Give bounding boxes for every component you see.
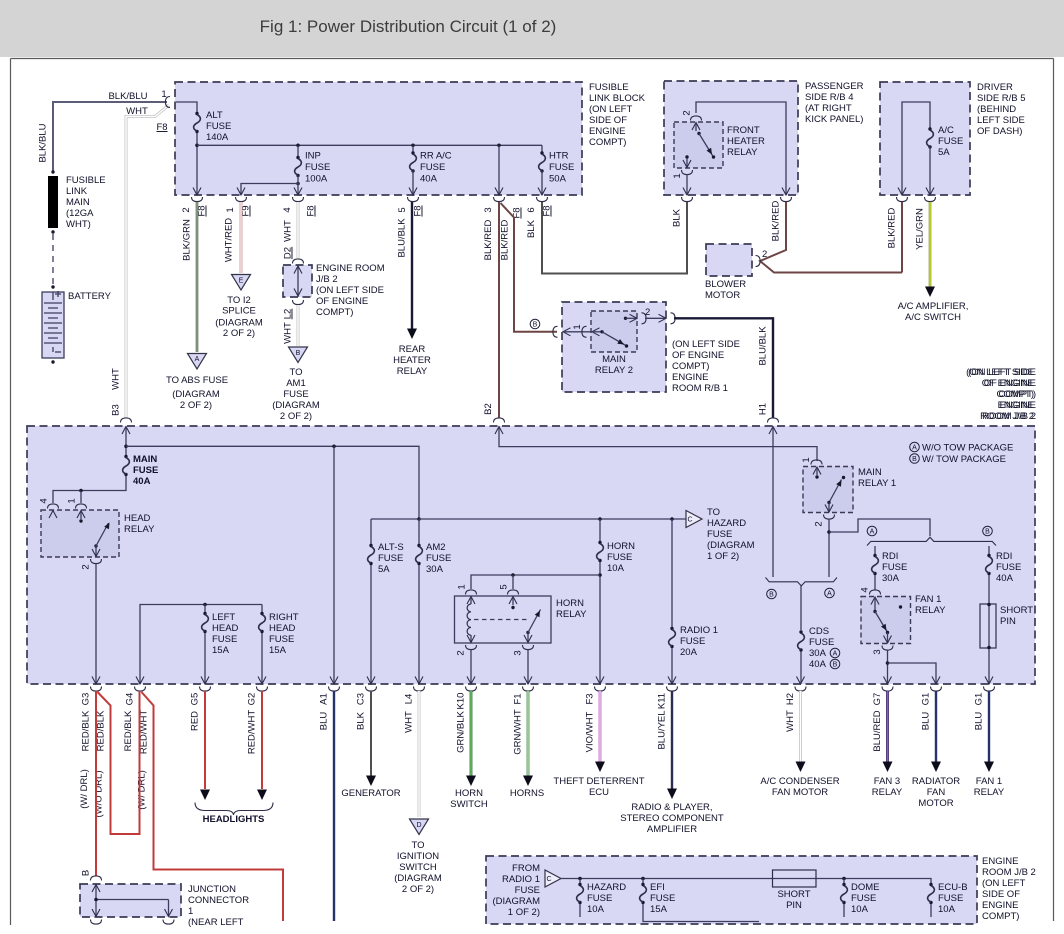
svg-text:10A: 10A: [851, 904, 869, 915]
svg-text:BLK/RED: BLK/RED: [483, 220, 494, 261]
svg-text:RED/BLK: RED/BLK: [123, 710, 134, 751]
svg-text:ENGINE: ENGINE: [1000, 400, 1036, 411]
svg-text:A: A: [827, 591, 832, 598]
triangle C from radio 1 fuse: [545, 870, 561, 887]
svg-text:HORN: HORN: [556, 598, 584, 609]
svg-text:HAZARD: HAZARD: [707, 518, 746, 529]
SEC-LEFT: [38, 89, 184, 418]
relay internals: [696, 102, 786, 195]
svg-text:K10: K10: [456, 693, 467, 710]
svg-text:BLK: BLK: [672, 208, 683, 227]
battery: [42, 291, 112, 364]
connector K11 at main box bottom: [668, 677, 676, 685]
ALT fuse 140A: [176, 102, 197, 112]
svg-text:G1: G1: [921, 693, 932, 706]
SEC-BOTTOM: [79, 677, 1005, 929]
svg-text:THEFT DETERRENT: THEFT DETERRENT: [553, 776, 644, 787]
svg-text:F8: F8: [413, 205, 424, 216]
svg-text:Fig 1: Power Distribution Circ: Fig 1: Power Distribution Circuit (1 of …: [260, 17, 557, 36]
svg-text:C3: C3: [356, 693, 367, 705]
svg-text:PIN: PIN: [1000, 616, 1016, 627]
svg-text:(ON LEFT SIDE: (ON LEFT SIDE: [316, 285, 384, 296]
svg-text:B: B: [985, 529, 990, 536]
svg-text:RED/WHT: RED/WHT: [247, 710, 258, 755]
svg-text:H2: H2: [785, 693, 796, 705]
main bus from main fuse: [126, 446, 419, 519]
svg-text:RADIATOR: RADIATOR: [912, 776, 960, 787]
svg-text:ROOM R/B 1: ROOM R/B 1: [672, 383, 728, 394]
svg-text:ROOM J/B 2: ROOM J/B 2: [982, 867, 1036, 878]
svg-text:W/ TOW PACKAGE: W/ TOW PACKAGE: [922, 454, 1006, 465]
svg-text:FAN MOTOR: FAN MOTOR: [772, 787, 828, 798]
svg-text:B: B: [533, 322, 538, 329]
BLK/RED drop x=499: [497, 144, 501, 148]
fusible link main: [51, 170, 54, 173]
headlights brace: [195, 803, 273, 816]
svg-text:RELAY 2: RELAY 2: [595, 365, 633, 376]
svg-text:G2: G2: [247, 693, 258, 706]
svg-text:OF ENGINE: OF ENGINE: [316, 296, 368, 307]
svg-text:FAN 1: FAN 1: [976, 776, 1002, 787]
svg-text:RIGHT: RIGHT: [269, 612, 299, 623]
svg-text:B3: B3: [111, 404, 122, 416]
svg-text:140A: 140A: [206, 132, 229, 143]
svg-text:WHT): WHT): [66, 219, 91, 230]
svg-text:ECU-B: ECU-B: [938, 882, 968, 893]
svg-text:(12GA: (12GA: [66, 208, 94, 219]
title header bar: [0, 0, 1064, 57]
svg-text:LEFT: LEFT: [212, 612, 235, 623]
svg-text:J/B 2: J/B 2: [316, 274, 338, 285]
B3 entry: [121, 418, 132, 423]
svg-text:A: A: [195, 356, 200, 363]
svg-text:F3: F3: [585, 693, 596, 704]
svg-text:(ON LEFT SIDE: (ON LEFT SIDE: [968, 367, 1036, 378]
svg-text:FUSE: FUSE: [882, 562, 907, 573]
svg-text:FUSE: FUSE: [206, 121, 231, 132]
fan 1 relay: [870, 590, 881, 595]
svg-text:W/O TOW PACKAGE: W/O TOW PACKAGE: [922, 443, 1013, 454]
horn fuse 10A: [598, 517, 602, 521]
svg-text:L2: L2: [283, 309, 294, 320]
svg-text:40A: 40A: [996, 573, 1014, 584]
connector G5 at main box bottom: [201, 677, 209, 685]
main fuse 40A: [125, 427, 127, 456]
svg-text:C: C: [688, 517, 693, 524]
svg-text:(W/ DRL): (W/ DRL): [79, 769, 90, 809]
svg-text:LEFT SIDE: LEFT SIDE: [977, 115, 1025, 126]
svg-text:B2: B2: [483, 403, 494, 415]
svg-text:ALT-S: ALT-S: [378, 542, 404, 553]
connector K10 at main box bottom: [467, 677, 475, 685]
main relay 2 outer box: [562, 302, 666, 392]
svg-text:1: 1: [672, 173, 683, 178]
svg-text:FAN 1: FAN 1: [915, 594, 941, 605]
front heater relay inner box: [674, 122, 723, 168]
branch to RDI fuses: [829, 519, 930, 536]
svg-text:FUSE: FUSE: [650, 893, 675, 904]
svg-text:5A: 5A: [378, 564, 390, 575]
svg-text:F1: F1: [513, 693, 524, 704]
svg-text:C: C: [547, 876, 552, 883]
svg-text:30A: 30A: [426, 564, 444, 575]
svg-text:FUSE: FUSE: [607, 552, 632, 563]
svg-text:50A: 50A: [549, 174, 567, 185]
wires BLK/RED pair from node 3: [498, 202, 500, 418]
svg-text:(DIAGRAM: (DIAGRAM: [172, 389, 220, 400]
wire BLK below passenger box: [686, 202, 688, 273]
wire BLU/BLK to rear heater relay: [411, 202, 413, 329]
svg-text:1: 1: [457, 584, 468, 589]
svg-text:FUSE: FUSE: [133, 465, 158, 476]
B2 entry bus to main relay 1: [494, 418, 505, 423]
svg-text:(DIAGRAM: (DIAGRAM: [394, 873, 442, 884]
circled B at feed: [530, 319, 540, 329]
svg-text:(ON LEFT: (ON LEFT: [589, 104, 632, 115]
wire WHT to B3: [126, 105, 169, 418]
split brace to RDI fuses: [867, 537, 996, 545]
svg-text:SWITCH: SWITCH: [399, 862, 437, 873]
svg-text:HEAD: HEAD: [212, 623, 239, 634]
svg-text:15A: 15A: [650, 904, 668, 915]
svg-text:BLU: BLU: [319, 712, 330, 731]
svg-text:A: A: [833, 651, 838, 658]
svg-text:(DIAGRAM: (DIAGRAM: [272, 400, 320, 411]
wire WHT through engine room J/B 2 to AM1: [297, 202, 300, 258]
svg-text:BLU/BLK: BLU/BLK: [758, 326, 769, 366]
svg-text:B: B: [81, 870, 92, 876]
svg-text:BATTERY: BATTERY: [68, 291, 112, 302]
svg-text:MOTOR: MOTOR: [705, 290, 740, 301]
svg-text:(NEAR LEFT: (NEAR LEFT: [188, 917, 244, 928]
svg-text:BLK/RED: BLK/RED: [500, 220, 511, 261]
wire WHT to ignition switch: [418, 691, 421, 817]
ECU-B fuse 10A: [928, 883, 935, 904]
svg-text:4: 4: [282, 207, 293, 212]
svg-text:BLU: BLU: [921, 712, 932, 731]
svg-text:1: 1: [801, 457, 812, 462]
triangle E to I2 splice: [232, 275, 251, 291]
svg-text:RELAY 1: RELAY 1: [858, 478, 896, 489]
svg-text:A/C CONDENSER: A/C CONDENSER: [760, 776, 839, 787]
svg-text:TO I2: TO I2: [227, 295, 251, 306]
svg-text:B: B: [833, 662, 838, 669]
connector G1 (radiator) at main box bottom: [932, 677, 940, 685]
svg-text:FUSE: FUSE: [378, 553, 403, 564]
svg-text:5: 5: [499, 584, 510, 589]
svg-text:10A: 10A: [587, 904, 605, 915]
svg-text:HEAD: HEAD: [269, 623, 296, 634]
wire BLK from node 6 to front heater relay: [542, 202, 687, 274]
svg-text:HEATER: HEATER: [393, 355, 431, 366]
svg-text:PIN: PIN: [786, 900, 802, 911]
svg-text:F8: F8: [306, 205, 317, 216]
svg-text:HORN: HORN: [607, 541, 635, 552]
svg-text:40A: 40A: [133, 476, 151, 487]
svg-text:20A: 20A: [680, 647, 698, 658]
svg-text:WHT: WHT: [126, 106, 148, 117]
HTR fuse 50A: [541, 145, 543, 152]
svg-text:HEAD: HEAD: [124, 513, 151, 524]
bus inside fusible link block: [197, 144, 542, 146]
svg-text:F8: F8: [542, 205, 553, 216]
svg-text:FUSE: FUSE: [938, 893, 963, 904]
wire BLU/YEL to radio: [671, 691, 673, 789]
CDS fuse: [800, 586, 802, 630]
triangle B to AM1 fuse: [289, 347, 308, 363]
horn relay feeder: [471, 575, 600, 589]
svg-text:CDS: CDS: [809, 626, 829, 637]
svg-text:SPLICE: SPLICE: [222, 306, 256, 317]
svg-text:G4: G4: [125, 693, 136, 706]
svg-text:HORNS: HORNS: [510, 788, 544, 799]
svg-text:HEADLIGHTS: HEADLIGHTS: [203, 814, 265, 825]
svg-text:WHT: WHT: [111, 368, 122, 390]
wire BLK/RED from front heater relay to blower: [760, 202, 902, 273]
svg-text:PASSENGER: PASSENGER: [805, 81, 864, 92]
left head fuse 15A: [204, 605, 206, 613]
svg-text:BLK/RED: BLK/RED: [887, 208, 898, 249]
wire BLU to fan 1 relay: [988, 691, 990, 762]
svg-text:WHT: WHT: [283, 220, 294, 242]
svg-text:AM1: AM1: [286, 378, 306, 389]
svg-text:HEATER: HEATER: [727, 136, 765, 147]
svg-text:2: 2: [181, 207, 192, 212]
svg-text:1 OF 2): 1 OF 2): [508, 907, 540, 918]
connector H2 at main box bottom: [797, 677, 805, 685]
AM2 fuse 30A: [418, 519, 420, 544]
wire BLU/BLK to H1: [674, 318, 773, 417]
svg-text:DRIVER: DRIVER: [977, 82, 1013, 93]
svg-text:BLU/YEL: BLU/YEL: [657, 710, 668, 749]
svg-text:FAN 3: FAN 3: [874, 776, 900, 787]
svg-text:D2: D2: [283, 247, 294, 259]
svg-text:KICK PANEL): KICK PANEL): [805, 114, 863, 125]
svg-text:OF DASH): OF DASH): [977, 126, 1022, 137]
svg-text:FUSE: FUSE: [680, 636, 705, 647]
svg-text:2 OF 2): 2 OF 2): [402, 884, 434, 895]
svg-text:FUSIBLE: FUSIBLE: [66, 175, 106, 186]
svg-text:BLK/RED: BLK/RED: [771, 201, 782, 242]
svg-text:MOTOR: MOTOR: [918, 798, 953, 809]
main relay 1: [811, 460, 822, 465]
wire WHT/RED to I2 splice: [240, 202, 243, 273]
svg-text:30A: 30A: [809, 648, 827, 659]
svg-text:FUSE: FUSE: [212, 634, 237, 645]
SEC-MAINRIGHT: [766, 367, 1037, 684]
RR A/C fuse 40A: [411, 144, 415, 148]
main relay 2 internals: [553, 326, 558, 337]
svg-text:RELAY: RELAY: [872, 787, 903, 798]
RDI fuse 30A: [874, 546, 876, 554]
svg-text:WHT/RED: WHT/RED: [224, 218, 235, 262]
svg-text:COMPT): COMPT): [316, 307, 353, 318]
svg-text:100A: 100A: [305, 174, 328, 185]
svg-text:(ON LEFT SIDE: (ON LEFT SIDE: [672, 339, 740, 350]
hazard fuse 10A: [578, 877, 582, 881]
svg-text:D: D: [416, 822, 421, 829]
svg-text:ENGINE: ENGINE: [982, 856, 1018, 867]
svg-text:INP: INP: [305, 151, 321, 162]
svg-text:B: B: [769, 592, 774, 599]
svg-text:TO ABS FUSE: TO ABS FUSE: [166, 375, 228, 386]
svg-text:SIDE OF: SIDE OF: [589, 115, 627, 126]
svg-text:COMPT): COMPT): [589, 137, 626, 148]
svg-text:BLU/RED: BLU/RED: [872, 710, 883, 751]
svg-text:FUSE: FUSE: [269, 634, 294, 645]
driver side R/B 5 box: [880, 82, 970, 195]
svg-text:FUSE: FUSE: [549, 162, 574, 173]
svg-text:BLK/BLU: BLK/BLU: [38, 123, 49, 162]
svg-text:REAR: REAR: [399, 344, 426, 355]
svg-text:FROM: FROM: [512, 863, 540, 874]
svg-text:K11: K11: [657, 693, 668, 709]
svg-text:40A: 40A: [420, 174, 438, 185]
blower motor box: [706, 244, 752, 276]
svg-text:(AT RIGHT: (AT RIGHT: [805, 103, 852, 114]
svg-text:FUSE: FUSE: [305, 162, 330, 173]
svg-text:ROOM J/B 2: ROOM J/B 2: [982, 411, 1036, 422]
svg-text:H1: H1: [758, 403, 769, 415]
svg-text:FUSE: FUSE: [707, 529, 732, 540]
svg-text:RED/BLK: RED/BLK: [81, 710, 92, 751]
svg-text:BLOWER: BLOWER: [705, 279, 746, 290]
connector G7 at main box bottom: [884, 677, 892, 685]
svg-text:1: 1: [225, 207, 236, 212]
svg-text:COMPT): COMPT): [999, 389, 1036, 400]
svg-text:G7: G7: [872, 693, 883, 706]
svg-text:5A: 5A: [938, 147, 950, 158]
svg-text:SIDE R/B 5: SIDE R/B 5: [977, 93, 1026, 104]
svg-text:TO: TO: [289, 367, 302, 378]
svg-text:FUSE: FUSE: [283, 389, 308, 400]
H1 entry: [768, 418, 779, 423]
svg-text:SWITCH: SWITCH: [450, 799, 488, 810]
short pin: [773, 870, 817, 887]
svg-text:DOME: DOME: [851, 882, 880, 893]
wire BLU to radiator fan motor: [935, 691, 937, 762]
wire BLK/RED from driver box to blower junction: [901, 202, 903, 273]
svg-text:BLU/BLK: BLU/BLK: [397, 218, 408, 258]
radio 1 fuse 20A: [670, 517, 674, 521]
dome fuse 10A: [842, 877, 846, 881]
svg-text:CONNECTOR: CONNECTOR: [188, 895, 249, 906]
svg-text:1: 1: [67, 498, 78, 503]
svg-text:B: B: [912, 456, 917, 463]
svg-text:2: 2: [762, 249, 767, 260]
svg-text:FUSE: FUSE: [587, 893, 612, 904]
wire BLU A1: [333, 691, 335, 921]
svg-text:2: 2: [814, 521, 825, 526]
svg-text:RELAY: RELAY: [727, 147, 758, 158]
connector L4 at main box bottom: [415, 677, 423, 685]
svg-text:15A: 15A: [269, 645, 287, 656]
SEC-BOTBOX: [486, 856, 1036, 924]
svg-text:FUSIBLE: FUSIBLE: [589, 82, 629, 93]
svg-text:TO: TO: [707, 507, 720, 518]
head fuse feeder bus: [140, 605, 262, 685]
svg-text:RADIO 1: RADIO 1: [502, 874, 540, 885]
svg-text:A/C AMPLIFIER,: A/C AMPLIFIER,: [898, 301, 969, 312]
svg-text:YEL/GRN: YEL/GRN: [915, 208, 926, 250]
svg-text:FAN: FAN: [927, 787, 946, 798]
connector A1 at main box bottom: [330, 677, 338, 685]
svg-text:FUSE: FUSE: [851, 893, 876, 904]
svg-text:2 OF 2): 2 OF 2): [280, 411, 312, 422]
svg-text:FUSE: FUSE: [996, 562, 1021, 573]
svg-text:RELAY: RELAY: [974, 787, 1005, 798]
svg-text:B: B: [296, 350, 301, 357]
svg-text:RR A/C: RR A/C: [420, 151, 452, 162]
connector F1 at main box bottom: [524, 677, 532, 685]
svg-text:ENGINE: ENGINE: [672, 372, 708, 383]
svg-text:HORN: HORN: [455, 788, 483, 799]
svg-text:RELAY: RELAY: [124, 524, 155, 535]
svg-text:A1: A1: [319, 693, 330, 705]
svg-text:BLK/GRN: BLK/GRN: [182, 219, 193, 261]
EFI fuse 15A: [641, 877, 645, 881]
svg-text:1 OF 2): 1 OF 2): [707, 551, 739, 562]
svg-text:GENERATOR: GENERATOR: [341, 788, 400, 799]
svg-text:(W/ DRL): (W/ DRL): [137, 770, 148, 810]
svg-text:HAZARD: HAZARD: [587, 882, 626, 893]
svg-text:WHT: WHT: [404, 711, 415, 733]
svg-text:MAIN: MAIN: [602, 354, 626, 365]
wire BLK/BLU battery to fusible link block: [53, 102, 167, 172]
svg-text:RELAY: RELAY: [915, 605, 946, 616]
svg-text:RADIO 1: RADIO 1: [680, 625, 718, 636]
INP fuse 100A: [296, 144, 300, 148]
connector G4 at main box bottom: [136, 677, 144, 685]
svg-text:ECU: ECU: [589, 787, 609, 798]
wire YEL/GRN to A/C amplifier: [929, 202, 932, 288]
svg-text:WHT: WHT: [283, 322, 294, 344]
svg-text:2 OF 2): 2 OF 2): [180, 400, 212, 411]
svg-text:ALT: ALT: [206, 110, 223, 121]
svg-text:TO: TO: [411, 840, 424, 851]
svg-text:SHORT: SHORT: [1000, 605, 1033, 616]
right head fuse 15A: [261, 605, 263, 613]
svg-text:F8: F8: [156, 122, 167, 133]
svg-text:BLK/BLU: BLK/BLU: [108, 91, 147, 102]
svg-text:VIO/WHT: VIO/WHT: [585, 711, 596, 752]
svg-text:BLK: BLK: [356, 711, 367, 730]
svg-text:6: 6: [526, 207, 537, 212]
main box right-side label (doubled print): [966, 367, 1036, 422]
svg-text:OF ENGINE: OF ENGINE: [984, 378, 1036, 389]
svg-text:GRN/BLK: GRN/BLK: [456, 710, 467, 752]
svg-text:E: E: [239, 278, 244, 285]
connector G3 at main box bottom: [92, 677, 100, 685]
svg-text:2: 2: [456, 650, 467, 655]
svg-text:BLU: BLU: [974, 712, 985, 731]
tow package legend: [910, 442, 920, 452]
svg-text:MAIN: MAIN: [858, 467, 882, 478]
svg-text:FUSE: FUSE: [420, 162, 445, 173]
svg-text:G1: G1: [974, 693, 985, 706]
engine room J/B 2 bottom box: [486, 856, 977, 924]
svg-text:RDI: RDI: [882, 551, 898, 562]
svg-text:2: 2: [645, 307, 650, 318]
svg-text:4: 4: [860, 587, 871, 592]
connector F3 at main box bottom: [596, 677, 604, 685]
svg-text:BLK: BLK: [526, 219, 537, 238]
short pin: [980, 604, 996, 648]
svg-text:GRN/WHT: GRN/WHT: [513, 709, 524, 755]
A/C fuse 5A: [902, 102, 930, 195]
svg-text:RELAY: RELAY: [556, 609, 587, 620]
passenger side R/B 4 box: [664, 81, 798, 195]
